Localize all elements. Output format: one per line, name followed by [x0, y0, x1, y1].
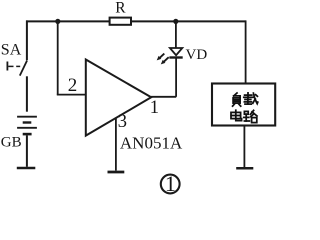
battery GB [17, 117, 37, 134]
wire LED up to node B [175, 21, 177, 47]
svg-text:1: 1 [150, 98, 159, 118]
label 电路 (circuit) hand-drawn glyphs [231, 110, 257, 122]
载 [244, 93, 258, 104]
ground bar under pin 3 [108, 171, 125, 174]
电 [231, 110, 242, 120]
node junction dot B [173, 19, 178, 24]
resistor R box [110, 18, 131, 25]
ground bar under load box [236, 167, 253, 170]
wire pin 3 down [115, 118, 117, 171]
wire switch to battery [26, 76, 28, 111]
svg-text:1: 1 [165, 171, 176, 196]
load circuit box 负载电路 [212, 84, 275, 126]
wire top supply rail [26, 20, 246, 22]
ground bar under battery [17, 167, 36, 170]
label 负载 (load) hand-drawn glyphs [233, 93, 258, 106]
svg-text:3: 3 [118, 112, 127, 132]
figure number circled 1 [161, 171, 180, 196]
路 [244, 110, 257, 122]
wire load box to ground [243, 127, 245, 168]
svg-text:SA: SA [1, 42, 22, 59]
wire battery to ground bar [26, 135, 28, 166]
switch SA (pushbutton) [7, 61, 27, 76]
svg-text:GB: GB [1, 135, 22, 151]
wire right drop to load box [245, 20, 247, 83]
负 [233, 93, 241, 106]
op-amp U1 triangle (AN051A) [86, 60, 151, 136]
wire left vertical drop to switch [26, 20, 28, 60]
wire output pin 1 to LED [151, 58, 176, 97]
svg-text:2: 2 [68, 75, 78, 96]
svg-text:AN051A: AN051A [120, 133, 183, 152]
svg-text:VD: VD [186, 47, 208, 63]
wire node A down to pin 2 [57, 21, 86, 94]
LED VD [157, 48, 183, 64]
node junction dot A [55, 19, 60, 24]
svg-text:R: R [115, 0, 126, 17]
